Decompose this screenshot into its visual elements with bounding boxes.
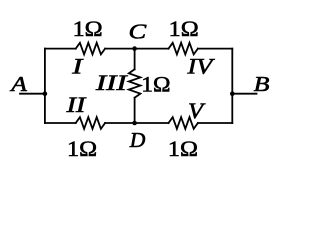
svg-text:A: A <box>9 73 27 97</box>
node C junction dot <box>132 46 137 51</box>
svg-text:D: D <box>129 128 146 152</box>
svg-text:1Ω: 1Ω <box>67 137 97 162</box>
resistor III <box>129 69 141 97</box>
wire top-right segment <box>198 48 232 50</box>
wire top-middle segment <box>105 48 168 50</box>
svg-text:I: I <box>71 53 83 78</box>
svg-text:1Ω: 1Ω <box>169 17 199 42</box>
wire terminal A lead <box>20 93 45 95</box>
wire middle upper segment <box>134 49 136 70</box>
resistor I <box>76 43 105 55</box>
wire middle lower segment <box>134 98 136 123</box>
svg-text:1Ω: 1Ω <box>141 72 170 96</box>
resistor V <box>169 117 198 129</box>
wire bottom-middle segment <box>105 122 168 124</box>
svg-text:V: V <box>188 99 206 124</box>
node A junction dot <box>43 91 48 96</box>
wire terminal B lead <box>232 93 256 95</box>
svg-text:1Ω: 1Ω <box>168 137 198 162</box>
wire bottom-right segment <box>198 122 232 124</box>
svg-text:B: B <box>254 73 270 96</box>
resistor II <box>76 117 105 129</box>
svg-text:III: III <box>95 70 129 95</box>
resistor IV <box>169 43 198 55</box>
svg-text:C: C <box>128 21 147 44</box>
wire right rail <box>231 49 233 123</box>
wire bottom-left segment <box>45 122 76 124</box>
node D junction dot <box>132 121 137 126</box>
svg-text:II: II <box>65 92 87 117</box>
wire left rail <box>44 49 46 123</box>
svg-text:1Ω: 1Ω <box>73 17 103 42</box>
wire top-left segment <box>45 48 76 50</box>
svg-text:IV: IV <box>186 54 215 79</box>
node B junction dot <box>230 91 235 96</box>
